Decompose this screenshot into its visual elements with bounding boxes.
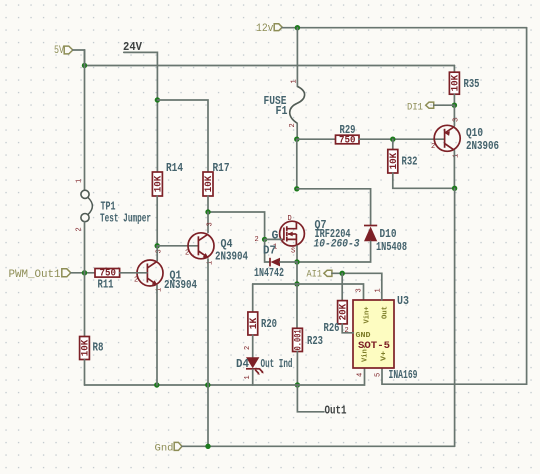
resistor R32 10K — [388, 150, 418, 174]
svg-text:D: D — [288, 215, 292, 223]
wire R23 bottom lead — [296, 352, 298, 386]
resistor R17 10K — [203, 162, 230, 196]
wire drain rail down — [296, 139, 298, 189]
resistor R11 750 — [95, 269, 120, 292]
junction gnd rail — [205, 444, 210, 449]
wire PWM node down to R8 — [84, 273, 86, 337]
svg-text:R17: R17 — [213, 162, 230, 175]
resistor R26 20K — [324, 301, 350, 335]
wire 5V rail horizontal — [85, 65, 455, 67]
diode D10 1N5408 — [364, 226, 407, 255]
resistor R35 10K — [449, 72, 479, 94]
svg-text:3: 3 — [453, 118, 461, 122]
svg-text:1: 1 — [291, 79, 299, 83]
svg-text:1: 1 — [76, 179, 84, 183]
svg-text:10K: 10K — [204, 176, 215, 193]
transistor Q1 2N3904 — [134, 249, 197, 292]
junction drain node — [294, 186, 299, 191]
svg-text:5: 5 — [375, 373, 383, 377]
wire D4 bottom lead — [252, 370, 254, 386]
wire 5V rail down to R35 — [453, 66, 455, 73]
junction R17 bottom / Q4 collector — [205, 209, 210, 214]
svg-text:2N3906: 2N3906 — [466, 140, 499, 153]
fuse F1 — [264, 79, 305, 127]
junction Q10 collector / R32 — [452, 186, 457, 191]
global label Gnd — [155, 442, 183, 454]
svg-text:DI1: DI1 — [407, 102, 423, 114]
global label Di1 — [407, 102, 434, 114]
svg-text:Q4: Q4 — [221, 238, 233, 251]
wire Q4 emitter down to gnd — [207, 259, 209, 446]
svg-text:2: 2 — [345, 327, 349, 335]
svg-text:INA169: INA169 — [389, 369, 418, 382]
wire R26 bottom to pin2 — [342, 324, 353, 333]
svg-text:Gnd: Gnd — [155, 443, 174, 455]
svg-text:12v: 12v — [256, 23, 274, 35]
wire gate node down to zener — [265, 239, 270, 262]
wire fuse bottom lead — [296, 124, 298, 140]
junction gate node — [262, 237, 267, 242]
svg-text:5V: 5V — [54, 45, 64, 57]
wire sense node to R20 branch and U3 pin3 — [253, 284, 364, 300]
wire 12v rail top — [297, 27, 526, 29]
wire R35 bottom lead — [453, 94, 455, 105]
wire D10 anode down and left to source node — [297, 241, 371, 262]
wire R20 to D4 — [252, 335, 254, 357]
svg-text:2: 2 — [134, 277, 138, 285]
junction R35/Di1/Q10 — [452, 103, 457, 108]
svg-text:R8: R8 — [93, 342, 104, 355]
wire 5V label to rail — [73, 50, 85, 66]
svg-text:Vin-: Vin- — [362, 345, 370, 362]
svg-text:10K: 10K — [450, 75, 461, 92]
resistor R29 750 — [336, 124, 360, 146]
svg-text:D7: D7 — [263, 245, 276, 258]
svg-text:Vin+: Vin+ — [364, 306, 372, 323]
svg-text:S: S — [291, 248, 295, 256]
svg-text:20K: 20K — [338, 304, 349, 321]
transistor Q4 2N3904 — [185, 222, 248, 265]
wire source node down — [296, 262, 298, 284]
global label Ai1 — [307, 269, 332, 281]
resistor R23 0.001 — [293, 328, 323, 351]
global label PWM_Out1 — [9, 269, 71, 281]
svg-text:Q10: Q10 — [466, 127, 483, 140]
wire R17 bottom node to gate — [208, 212, 265, 239]
svg-text:D4: D4 — [236, 358, 249, 371]
svg-text:D10: D10 — [380, 228, 397, 241]
wire to R17 column — [157, 100, 208, 172]
svg-text:R29: R29 — [340, 124, 356, 137]
wire R11 to Q1 base — [120, 272, 147, 274]
svg-text:2N3904: 2N3904 — [215, 251, 248, 264]
wire Ai1 to pin1 — [332, 273, 382, 300]
junction Q4 emitter bottom — [205, 382, 210, 387]
svg-text:Out: Out — [382, 306, 390, 319]
junction PWM node — [82, 270, 87, 275]
svg-text:R26: R26 — [324, 322, 340, 335]
IC U3 INA169 — [345, 288, 418, 382]
wire R17 bottom lead — [207, 196, 209, 212]
svg-text:R14: R14 — [166, 162, 183, 175]
wire R8 bottom to bus — [84, 360, 86, 386]
junction 12v fuse tap — [295, 25, 300, 30]
wire R20 top lead — [252, 284, 254, 312]
svg-text:4: 4 — [357, 373, 365, 377]
svg-text:Out1: Out1 — [325, 404, 347, 418]
wire gnd column — [454, 188, 456, 446]
wire 24V drop — [124, 52, 158, 172]
svg-text:GND: GND — [356, 332, 372, 340]
svg-text:10K: 10K — [153, 176, 164, 193]
svg-text:V+: V+ — [381, 350, 389, 361]
global label 5V — [54, 45, 73, 57]
wire gnd rail — [182, 445, 455, 447]
svg-text:1: 1 — [244, 375, 252, 379]
svg-text:R35: R35 — [464, 78, 480, 91]
svg-text:2: 2 — [76, 227, 84, 231]
svg-text:F1: F1 — [276, 105, 288, 118]
svg-text:3: 3 — [356, 288, 364, 292]
resistor R20 1K — [248, 312, 277, 335]
wire pin5 to 12v loop — [381, 368, 383, 384]
zener D7 1N4742 — [254, 245, 284, 281]
wire R32 top lead — [392, 139, 394, 149]
wire zener to source node — [280, 261, 297, 263]
resistor R14 10K — [152, 162, 183, 196]
wire to R29 — [297, 138, 336, 140]
svg-text:2: 2 — [185, 250, 189, 258]
mosfet Q7 IRF2204 — [255, 215, 360, 256]
junction Ai1/R26 — [340, 271, 345, 276]
svg-text:2: 2 — [431, 143, 435, 151]
svg-text:U3: U3 — [397, 295, 409, 308]
svg-text:R23: R23 — [307, 335, 323, 348]
wire Di1 to junction — [434, 104, 455, 106]
svg-text:G: G — [272, 230, 279, 243]
wire 12v label to junction — [282, 27, 297, 29]
wire R14 bottom to Q4 base node — [156, 196, 158, 246]
led D4 Out Ind — [236, 346, 293, 380]
wire R29 to Q10 base with R32 tap — [359, 138, 444, 140]
wire fuse top lead — [296, 28, 298, 87]
wire drain node to D10 — [297, 189, 371, 225]
svg-text:Test Jumper: Test Jumper — [100, 213, 151, 226]
svg-text:2: 2 — [289, 123, 297, 127]
wire Q10 collector down — [453, 151, 455, 189]
wire PWM label to junction — [71, 272, 95, 274]
junction Q1 collector / Q4 base — [155, 243, 160, 248]
wire 12v right side drop — [382, 28, 527, 385]
junction source node — [294, 259, 299, 264]
svg-text:Out Ind: Out Ind — [261, 358, 293, 371]
wire gate lead — [265, 238, 282, 240]
wire to Q4 base — [157, 245, 198, 247]
wire Q4 collector lead — [207, 212, 209, 233]
svg-text:AI1: AI1 — [307, 269, 323, 281]
wire Q1 collector lead — [156, 246, 158, 261]
svg-text:1K: 1K — [249, 318, 260, 330]
wire Out1 stub — [297, 385, 324, 412]
wire sense node to R23 — [296, 284, 298, 328]
resistor R8 10K — [80, 337, 104, 360]
svg-text:2N3904: 2N3904 — [164, 279, 197, 292]
svg-text:10K: 10K — [389, 153, 400, 170]
junction 5V rail — [82, 63, 87, 68]
wire Q1 emitter down — [156, 285, 158, 385]
wire R32 bottom to gnd column — [393, 173, 455, 188]
jumper TP1 — [76, 50, 152, 232]
wire R26 top lead — [341, 273, 343, 300]
svg-text:PWM_Out1: PWM_Out1 — [9, 269, 61, 281]
junction 24V split — [155, 97, 160, 102]
transistor Q10 2N3906 — [431, 118, 499, 158]
svg-text:10K: 10K — [81, 340, 92, 357]
svg-text:10-260-3: 10-260-3 — [314, 239, 360, 251]
wire Q10 emitter lead — [453, 105, 455, 126]
junction sense top node — [294, 281, 299, 286]
svg-text:R20: R20 — [261, 318, 277, 331]
svg-text:R11: R11 — [98, 279, 114, 292]
junction fuse bottom — [294, 137, 299, 142]
svg-text:1N5408: 1N5408 — [376, 241, 407, 254]
global label 12v — [256, 23, 282, 35]
svg-text:3: 3 — [207, 222, 215, 226]
svg-text:R32: R32 — [402, 156, 418, 169]
wire TP1 bottom to PWM node — [84, 222, 86, 273]
svg-text:1N4742: 1N4742 — [254, 267, 284, 280]
junction R32 tap — [390, 137, 395, 142]
svg-text:0.001: 0.001 — [294, 329, 305, 350]
junction Q1 emitter bottom — [154, 382, 159, 387]
junction shunt bottom — [295, 382, 300, 387]
wire bottom bus y385 — [85, 368, 365, 385]
svg-text:2: 2 — [255, 236, 259, 244]
svg-text:2: 2 — [244, 346, 252, 350]
wire Q7 source lead — [296, 246, 298, 262]
